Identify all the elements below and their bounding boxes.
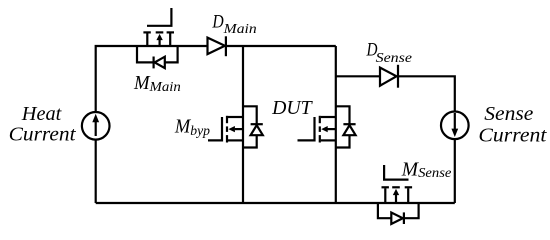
svg-text:M: M — [174, 116, 192, 138]
svg-text:D: D — [212, 12, 224, 33]
svg-text:Current: Current — [9, 124, 76, 146]
wire top middle — [226, 45, 336, 47]
transistor M_Sense — [382, 165, 413, 203]
current source heat — [82, 112, 110, 140]
transistor M_byp — [208, 46, 243, 203]
diode D_Sense — [380, 65, 398, 88]
svg-text:Sense: Sense — [484, 103, 533, 125]
body diode of M_byp — [243, 106, 263, 147]
svg-text:byp: byp — [190, 123, 210, 138]
wire sense bottom — [454, 139, 456, 203]
svg-text:M: M — [133, 72, 151, 94]
transistor DUT — [298, 46, 336, 203]
svg-text:Main: Main — [223, 22, 257, 37]
current source sense — [441, 112, 469, 140]
diode D_Main — [208, 36, 226, 56]
wire sense top — [336, 75, 380, 77]
wire top left — [96, 46, 208, 112]
svg-text:Sense: Sense — [418, 166, 451, 181]
wire sense right — [398, 76, 455, 111]
body diode of M_Sense — [378, 203, 419, 224]
transistor M_Main — [143, 8, 174, 46]
body diode of M_Main — [137, 46, 178, 69]
svg-text:Current: Current — [478, 125, 546, 147]
wire bottom — [96, 202, 455, 204]
body diode of DUT — [336, 106, 356, 147]
svg-text:Main: Main — [148, 80, 180, 95]
wire left bottom — [95, 140, 97, 203]
svg-text:DUT: DUT — [271, 97, 313, 119]
svg-text:Sense: Sense — [376, 51, 412, 66]
svg-text:M: M — [401, 159, 420, 181]
svg-text:Heat: Heat — [21, 103, 62, 125]
